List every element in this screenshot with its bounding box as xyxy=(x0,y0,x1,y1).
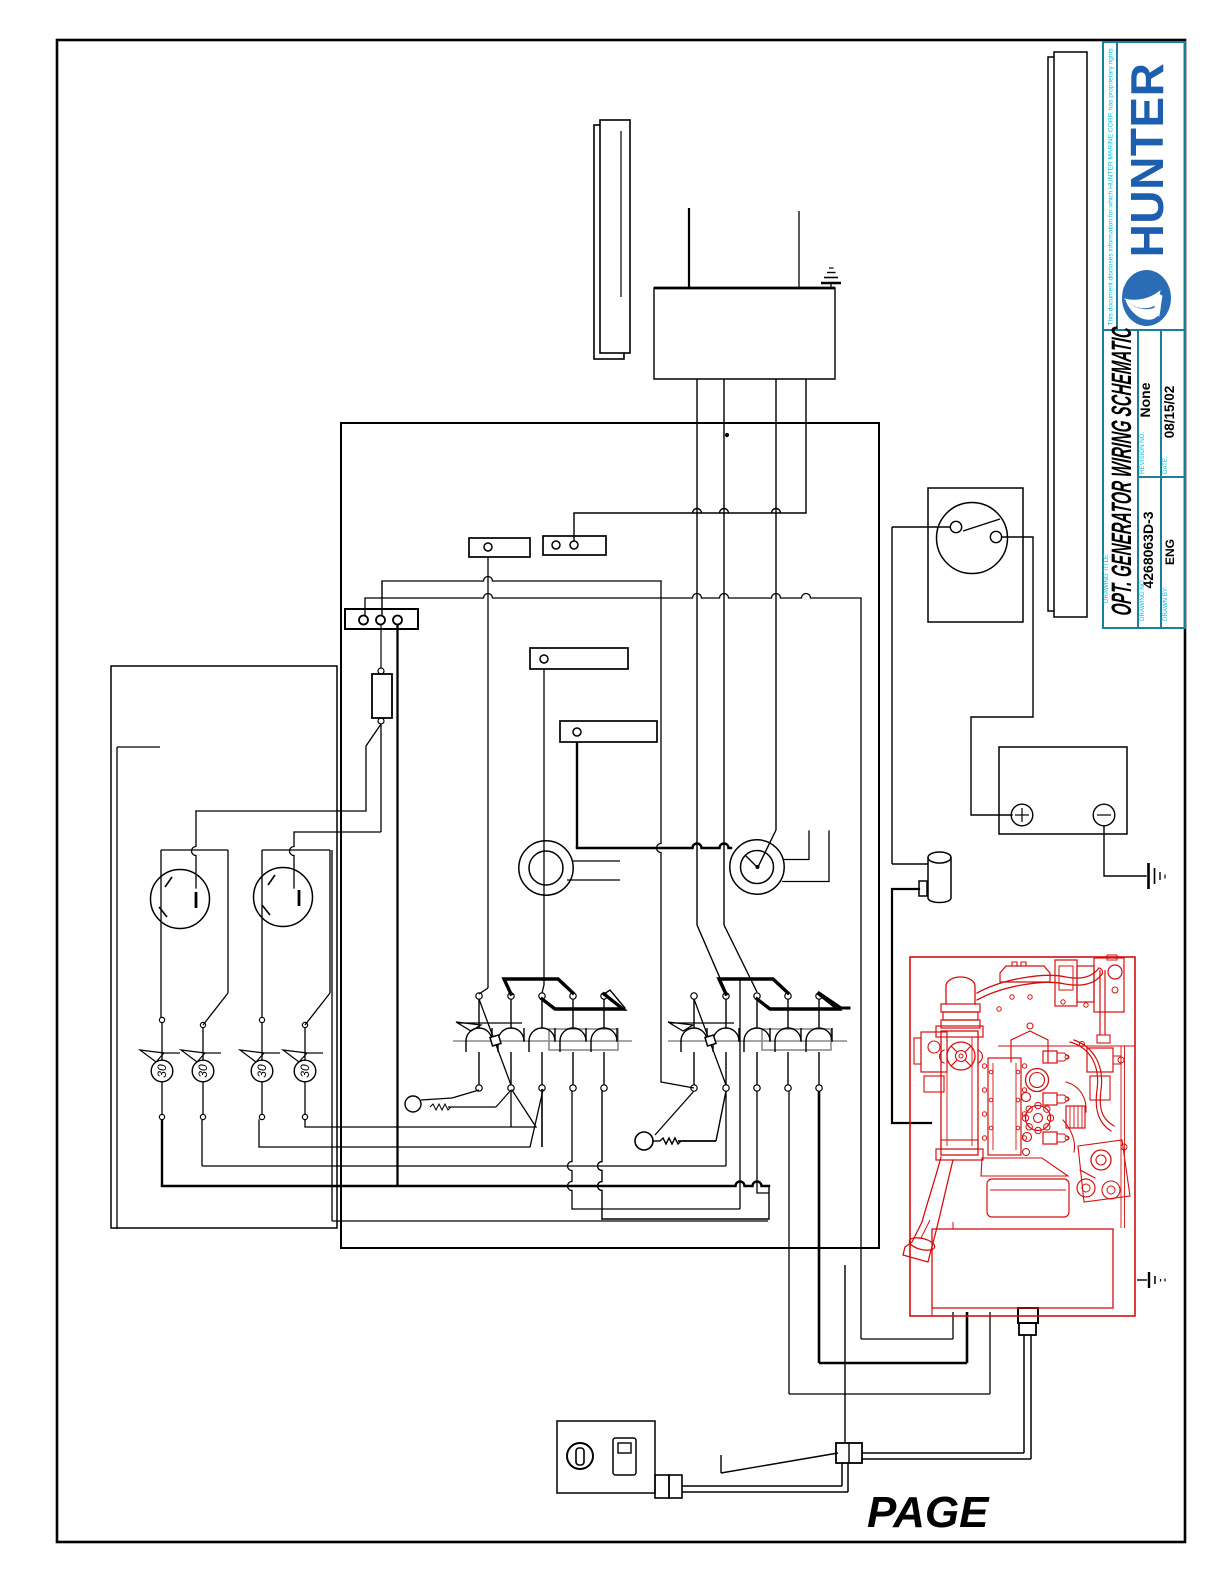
svg-text:30: 30 xyxy=(155,1064,169,1078)
wire CT1 sec b xyxy=(567,879,620,881)
title block xyxy=(1103,42,1185,628)
wire W-E (TS5-1 run) xyxy=(365,594,861,617)
engine (red outline drawing) xyxy=(903,955,1135,1316)
wire battery negative xyxy=(1104,826,1146,876)
battery B1 xyxy=(999,747,1127,834)
wire W-D (xfmr sec 4) xyxy=(574,379,806,541)
current transformer CT2 xyxy=(730,840,784,894)
current transformer CT1 xyxy=(519,841,573,895)
terminal strip TS3 xyxy=(530,648,628,669)
exciter G1 with resistor xyxy=(405,1090,511,1112)
ground (engine) xyxy=(1137,1272,1165,1288)
wire W-B (xfmr sec 2) xyxy=(724,379,757,992)
bus panel inner line xyxy=(620,131,622,297)
wire W-O (thick run to CT2) xyxy=(577,844,731,849)
rocker switch xyxy=(613,1438,636,1475)
panel connector xyxy=(655,1475,682,1498)
terminal strip TS1 xyxy=(543,536,606,555)
wire J1-right to breaker CB2 xyxy=(203,850,228,1025)
breaker CB3 30A xyxy=(240,1017,280,1119)
wire J2-left to breaker CB3 xyxy=(261,850,263,1018)
wire W-L (TS3 through CT1) xyxy=(542,669,544,993)
wire W-J (left drop) xyxy=(117,747,160,1229)
wire harness panel to glow connector xyxy=(682,1463,848,1492)
shore power box xyxy=(111,666,337,1228)
wire sender to engine (thick) xyxy=(892,889,931,1123)
wire W-M (TS2 drop) xyxy=(479,557,488,994)
key switch panel xyxy=(557,1421,655,1493)
svg-text:This document discloses inform: This document discloses information for … xyxy=(1108,46,1115,325)
control box xyxy=(341,423,879,1248)
wire vertical T3b xyxy=(541,1089,543,1147)
ground (battery) xyxy=(1149,863,1166,889)
wire W2 (thick) xyxy=(819,1091,967,1363)
wire K2 coil drop xyxy=(739,978,741,1209)
wire W-I (fuse to receptacle 2) xyxy=(290,724,382,888)
ground (transformer) xyxy=(821,268,841,288)
glow plug connector xyxy=(836,1443,862,1463)
svg-text:None: None xyxy=(1137,382,1153,417)
wire L4 drop xyxy=(568,1091,741,1209)
svg-text:DATE:: DATE: xyxy=(1162,456,1169,474)
battery plus terminal xyxy=(1011,804,1033,826)
bus panel xyxy=(600,120,630,353)
engine connector xyxy=(1018,1308,1038,1335)
start breaker switch xyxy=(937,503,1008,574)
bus panel (shadow) xyxy=(594,125,624,359)
wire W-K (J2 aux drop) xyxy=(332,850,768,1221)
transformer T1 xyxy=(654,288,835,379)
PAGE label xyxy=(867,1488,990,1537)
wire breaker to battery xyxy=(971,537,1033,815)
wire sender feed xyxy=(892,863,928,865)
wire L5 drop xyxy=(598,1091,769,1219)
svg-text:08/15/02: 08/15/02 xyxy=(1162,386,1177,439)
breaker CB1 30A xyxy=(140,1017,180,1119)
svg-text:4268063D-3: 4268063D-3 xyxy=(1140,511,1156,588)
wire transformer primary 2 xyxy=(798,211,800,288)
junction dot xyxy=(725,433,728,436)
wire CT1 sec a xyxy=(573,860,620,862)
svg-text:REVISION NO.: REVISION NO. xyxy=(1139,431,1146,474)
exciter G2 with resistor xyxy=(635,1091,726,1150)
wire harness to engine connector xyxy=(862,1335,1031,1459)
wire W-F (TS5-2 run) xyxy=(382,577,661,617)
fuse F1 xyxy=(372,624,392,724)
stop lever xyxy=(721,1453,838,1473)
wire W3 xyxy=(789,1091,990,1394)
wire W-H (fuse to receptacle 1) xyxy=(192,724,382,888)
wire breaker to engine xyxy=(892,527,951,864)
receptacle J2 xyxy=(254,868,313,927)
breaker CB2 30A xyxy=(181,1022,221,1119)
wire J1-left to breaker CB1 xyxy=(160,850,162,1018)
wire W-A (xfmr sec 1) xyxy=(697,379,726,992)
wire run B1 (thick) xyxy=(162,1120,769,1186)
wire W-R (to W1 drop) xyxy=(860,598,862,1339)
terminal strip TS4 xyxy=(560,721,657,742)
wire J2-right to breaker CB4 xyxy=(305,850,330,1025)
battery minus terminal xyxy=(1093,804,1115,826)
terminal strip TS2 xyxy=(469,538,530,557)
wire cap J1 xyxy=(161,849,228,851)
wire CT2 sec b xyxy=(783,831,830,882)
receptacle J1 xyxy=(151,870,210,929)
wire W-G (TS5-3 thick drop) xyxy=(396,624,398,1186)
svg-text:30: 30 xyxy=(196,1064,210,1078)
wire cap J2 xyxy=(262,849,330,851)
svg-text:OPT. GENERATOR WIRING SCHEMATI: OPT. GENERATOR WIRING SCHEMATIC xyxy=(1105,325,1137,617)
svg-text:DRAWN BY:: DRAWN BY: xyxy=(1162,586,1169,621)
wire W-C (xfmr sec 3) xyxy=(758,379,776,867)
wire run B2 xyxy=(202,1120,726,1166)
wire R3 drop xyxy=(757,1091,768,1193)
wire vertical T2b xyxy=(510,1091,512,1127)
wire run B3 xyxy=(259,1090,543,1147)
wire CT2 sec a xyxy=(784,831,810,860)
wire W1 xyxy=(861,1312,953,1339)
breaker CB4 30A xyxy=(283,1022,323,1119)
svg-text:30: 30 xyxy=(255,1064,269,1078)
wire W-Q (to R1 bottom) xyxy=(657,581,695,1088)
side panel (shadow) xyxy=(1048,57,1082,611)
wire transformer primary 1 xyxy=(688,208,690,288)
svg-text:ENG: ENG xyxy=(1163,539,1177,565)
contactor K2 xyxy=(668,979,849,1091)
key switch xyxy=(567,1443,593,1469)
svg-text:HUNTER: HUNTER xyxy=(1121,63,1173,258)
svg-text:30: 30 xyxy=(298,1064,312,1078)
contactor K1 xyxy=(453,979,632,1091)
svg-text:PAGE: PAGE xyxy=(867,1488,990,1537)
terminal strip TS5 xyxy=(345,609,418,629)
side panel xyxy=(1054,52,1087,617)
oil pressure sender xyxy=(919,852,951,903)
start breaker box xyxy=(928,488,1023,622)
wire glow connector up xyxy=(844,1265,846,1443)
wire R2 drop xyxy=(725,1091,727,1166)
wire run B4 xyxy=(305,1090,536,1127)
wire W-N (TS4 thick drop) xyxy=(576,742,578,848)
